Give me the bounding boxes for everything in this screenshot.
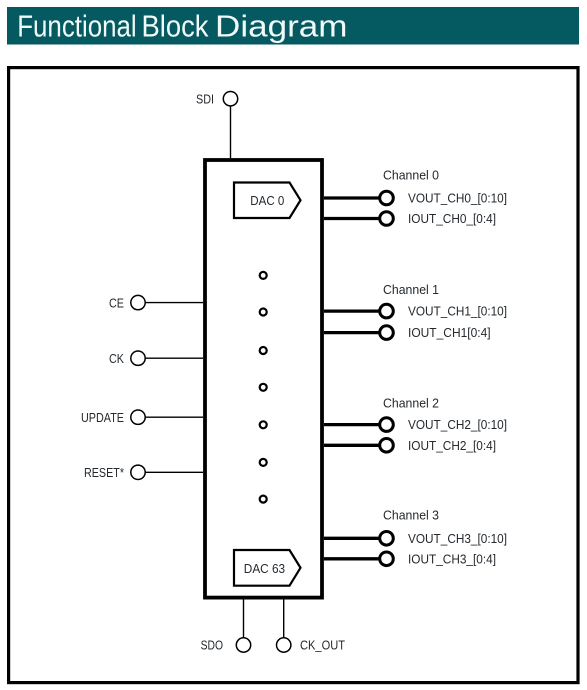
- DAC 63: [234, 550, 301, 586]
- svg-text:DAC 63: DAC 63: [244, 561, 285, 576]
- SDI terminal: [196, 91, 238, 158]
- RESET* terminal: [84, 465, 203, 480]
- RESET* wire: [145, 471, 203, 473]
- svg-text:IOUT_CH3_[0:4]: IOUT_CH3_[0:4]: [408, 551, 496, 566]
- svg-text:Channel 2: Channel 2: [383, 395, 439, 410]
- Channel 0: [324, 168, 507, 226]
- dot 5: [260, 421, 267, 428]
- dot column: [260, 272, 267, 503]
- svg-text:UPDATE: UPDATE: [81, 410, 124, 425]
- CK wire: [145, 357, 203, 359]
- VOUT_CH0 pad: [380, 191, 394, 205]
- UPDATE pad: [131, 410, 145, 424]
- IOUT_CH0 wire: [324, 217, 380, 220]
- Channel 2: [324, 395, 507, 453]
- IOUT_CH2 wire: [324, 444, 380, 447]
- IOUT_CH2 pad: [380, 439, 394, 453]
- CK_OUT terminal: [277, 600, 346, 653]
- svg-text:IOUT_CH2_[0:4]: IOUT_CH2_[0:4]: [408, 438, 496, 453]
- svg-text:VOUT_CH2_[0:10]: VOUT_CH2_[0:10]: [408, 417, 507, 432]
- CK_OUT wire: [283, 600, 285, 639]
- dot 6: [260, 459, 267, 466]
- VOUT_CH2 wire: [324, 423, 380, 426]
- VOUT_CH3 wire: [324, 537, 380, 540]
- svg-text:VOUT_CH1_[0:10]: VOUT_CH1_[0:10]: [408, 304, 507, 319]
- svg-text:SDI: SDI: [196, 91, 214, 106]
- CE terminal: [109, 295, 203, 310]
- UPDATE terminal: [81, 410, 203, 425]
- CK pad: [131, 351, 145, 365]
- VOUT_CH0 wire: [324, 196, 380, 199]
- SDO terminal: [201, 600, 251, 653]
- central block: [205, 160, 322, 598]
- VOUT_CH1 pad: [380, 304, 394, 318]
- svg-text:IOUT_CH0_[0:4]: IOUT_CH0_[0:4]: [408, 211, 496, 226]
- VOUT_CH3 pad: [380, 532, 394, 546]
- dot 4: [260, 384, 267, 391]
- dot 1: [260, 272, 267, 279]
- svg-text:DAC 0: DAC 0: [250, 193, 284, 208]
- svg-text:Block: Block: [142, 8, 209, 43]
- svg-text:VOUT_CH3_[0:10]: VOUT_CH3_[0:10]: [408, 531, 507, 546]
- SDI wire: [230, 106, 232, 158]
- UPDATE wire: [145, 416, 203, 418]
- title bar: [7, 7, 579, 45]
- IOUT_CH1 wire: [324, 331, 380, 334]
- DAC 0: [234, 183, 301, 219]
- SDO wire: [243, 600, 245, 639]
- svg-text:Channel 1: Channel 1: [383, 282, 439, 297]
- svg-text:CK: CK: [109, 351, 124, 366]
- CK_OUT pad: [277, 638, 291, 652]
- svg-text:VOUT_CH0_[0:10]: VOUT_CH0_[0:10]: [408, 191, 507, 206]
- IOUT_CH3 wire: [324, 557, 380, 560]
- svg-text:RESET*: RESET*: [84, 465, 124, 480]
- svg-text:SDO: SDO: [201, 638, 223, 653]
- Channel 3: [324, 507, 507, 566]
- svg-text:Functional: Functional: [17, 8, 137, 43]
- SDI pad: [223, 92, 237, 106]
- dot 3: [260, 347, 267, 354]
- svg-text:Channel 3: Channel 3: [383, 507, 439, 522]
- svg-text:Channel 0: Channel 0: [383, 168, 439, 183]
- IOUT_CH0 pad: [380, 212, 394, 226]
- CK terminal: [109, 351, 203, 366]
- CE wire: [145, 302, 203, 304]
- RESET* pad: [131, 465, 145, 479]
- IOUT_CH1 pad: [380, 326, 394, 340]
- svg-text:Diagram: Diagram: [215, 8, 348, 43]
- VOUT_CH1 wire: [324, 309, 380, 312]
- dot 7: [260, 496, 267, 503]
- Channel 1: [324, 282, 507, 340]
- svg-text:CE: CE: [109, 295, 124, 310]
- CE pad: [131, 295, 145, 309]
- svg-text:IOUT_CH1[0:4]: IOUT_CH1[0:4]: [408, 325, 491, 340]
- dot 2: [260, 309, 267, 316]
- SDO pad: [236, 638, 250, 652]
- VOUT_CH2 pad: [380, 418, 394, 432]
- IOUT_CH3 pad: [380, 552, 394, 566]
- svg-text:CK_OUT: CK_OUT: [300, 638, 345, 653]
